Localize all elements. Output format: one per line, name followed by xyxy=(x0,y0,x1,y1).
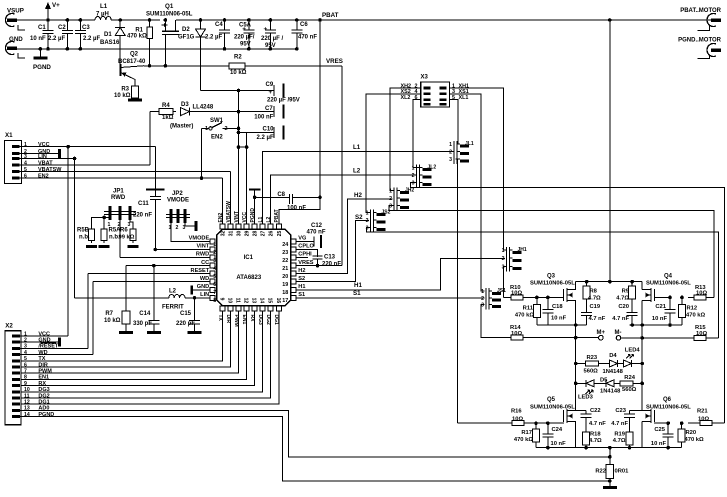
pin X2-1 VCC xyxy=(12,335,20,338)
pin 13 RX of IC1 xyxy=(252,306,257,311)
pin 14 DG3 of IC1 xyxy=(260,306,265,311)
wire D2 to C9 node xyxy=(201,90,239,92)
bracket PGND motor xyxy=(698,55,710,59)
svg-text:Q5: Q5 xyxy=(547,397,556,403)
svg-text:2: 2 xyxy=(389,196,392,202)
svg-text:LED4: LED4 xyxy=(625,347,641,353)
svg-text:3: 3 xyxy=(128,222,131,228)
wire WD to X2 xyxy=(92,282,94,355)
wire Q5 drain to C22 xyxy=(576,410,586,412)
svg-text:PBAT: PBAT xyxy=(322,12,339,19)
junction C9 node xyxy=(237,89,241,93)
svg-text:16: 16 xyxy=(275,298,281,304)
svg-text:9: 9 xyxy=(218,298,224,301)
svg-text:C25: C25 xyxy=(654,427,665,433)
svg-text:C3: C3 xyxy=(82,25,90,31)
svg-text:C23: C23 xyxy=(615,408,626,414)
wire PWM IC to X2 xyxy=(20,311,239,373)
svg-text:1: 1 xyxy=(502,248,505,254)
svg-text:Q1: Q1 xyxy=(165,3,174,10)
wire R2 to VRES corner xyxy=(245,65,342,67)
svg-text:JH2: JH2 xyxy=(405,187,414,193)
wire gate RC tie right xyxy=(630,324,683,326)
wire gate drive to R2 xyxy=(144,65,229,67)
svg-text:R12: R12 xyxy=(687,306,698,312)
resistor R16 xyxy=(512,421,524,426)
svg-text:XL1: XL1 xyxy=(459,95,469,101)
junction D1 top xyxy=(118,18,122,22)
svg-text:C10: C10 xyxy=(263,126,275,132)
pin 9 TX of IC1 xyxy=(220,306,225,311)
wire PGND to shunt gnd xyxy=(20,417,610,481)
pin 1 VMODE of IC1 xyxy=(210,239,215,244)
inductor L1 xyxy=(95,16,111,20)
svg-text:560Ω: 560Ω xyxy=(622,387,637,393)
ground R5A xyxy=(99,245,110,248)
pin X2-2 GND xyxy=(12,341,20,344)
pin 28 PGND of IC1 xyxy=(252,224,257,229)
resistor R3 xyxy=(132,86,139,98)
pin 6 WD of IC1 xyxy=(210,279,215,284)
svg-text:C15: C15 xyxy=(180,311,192,317)
svg-text:LIN: LIN xyxy=(200,292,209,298)
svg-text:1kΩ: 1kΩ xyxy=(162,115,174,121)
jumper JL1 xyxy=(454,141,457,164)
junction C13 VRES xyxy=(316,264,320,268)
capacitor C13 xyxy=(313,250,323,266)
wire Q4 gate xyxy=(654,296,670,298)
svg-text:PGND: PGND xyxy=(33,64,51,71)
pin 10 DIR of IC1 xyxy=(228,306,233,311)
ground C14 xyxy=(147,331,161,334)
wire X2 VCC xyxy=(20,335,68,337)
wire H2 net xyxy=(296,199,392,274)
wire R10 to Q3 gate xyxy=(530,296,564,298)
pin 26 L2 of IC1 xyxy=(268,224,273,229)
ground shunt xyxy=(603,486,617,489)
pin 22 CPHI of IC1 xyxy=(291,255,296,260)
svg-text:SUM110N06-05L: SUM110N06-05L xyxy=(646,281,691,287)
pin 32 EN2 of IC1 xyxy=(220,224,225,229)
svg-text:(Master): (Master) xyxy=(170,124,193,130)
ground R5B xyxy=(86,245,97,248)
pin X1-2 GND xyxy=(12,152,20,155)
svg-text:BC817-40: BC817-40 xyxy=(118,59,146,65)
pin X2-7 PWM xyxy=(12,372,20,375)
svg-text:R21: R21 xyxy=(697,409,708,415)
junction VCC to X2 xyxy=(66,145,70,149)
svg-text:3: 3 xyxy=(481,302,484,308)
svg-text:C1: C1 xyxy=(38,25,46,31)
svg-text:SUM110N06-05L: SUM110N06-05L xyxy=(530,281,575,287)
wire X1 VBAT row xyxy=(20,164,150,166)
ground X1 GND xyxy=(58,149,61,158)
ground PGND xyxy=(39,49,41,57)
svg-text:29: 29 xyxy=(245,230,251,236)
svg-text:VSUP: VSUP xyxy=(7,8,24,15)
svg-text:S2: S2 xyxy=(355,214,363,221)
pin X2-6 DIR xyxy=(12,366,20,369)
svg-text:S1: S1 xyxy=(353,290,361,297)
ground PGND pin28 xyxy=(254,190,256,224)
capacitor C24 xyxy=(542,423,553,448)
wire M- column xyxy=(641,338,643,364)
wire M+ column xyxy=(575,338,577,364)
svg-text:M-: M- xyxy=(615,330,622,336)
svg-text:C19: C19 xyxy=(590,304,601,310)
svg-text:10Ω: 10Ω xyxy=(698,416,709,422)
svg-text:BAS16: BAS16 xyxy=(100,40,120,46)
svg-text:12: 12 xyxy=(243,298,249,304)
wire L1 net xyxy=(263,152,454,224)
wire D3 to node xyxy=(190,111,239,113)
wire M- line xyxy=(621,337,694,339)
resistor R24 xyxy=(620,381,633,386)
svg-text:R22: R22 xyxy=(595,469,606,475)
capacitor C15 branch xyxy=(194,298,196,312)
capacitor C20 xyxy=(627,303,638,325)
svg-text:CC: CC xyxy=(201,260,209,266)
bracket PBAT motor xyxy=(698,25,710,31)
svg-text:32: 32 xyxy=(220,230,226,236)
junction C7 node xyxy=(237,110,241,114)
svg-text:15: 15 xyxy=(267,298,273,304)
wire Q3 drain xyxy=(575,282,577,290)
wire R5B to JP1-1 xyxy=(92,217,110,226)
capacitor C15 xyxy=(189,312,200,333)
svg-text:1: 1 xyxy=(205,126,208,132)
diode D3 LL4248 xyxy=(181,108,190,116)
svg-text:4.7Ω: 4.7Ω xyxy=(589,438,602,444)
pin 27 L1 of IC1 xyxy=(260,224,265,229)
wire bridge drain rail xyxy=(576,281,643,283)
svg-text:7: 7 xyxy=(24,369,27,375)
wire X1 GND row xyxy=(20,153,60,155)
wire X2 GND xyxy=(20,341,60,343)
svg-text:LL4248: LL4248 xyxy=(193,105,214,111)
pin 8 LIN of IC1 xyxy=(210,295,215,300)
pin 16 DG1 of IC1 xyxy=(276,306,281,311)
svg-text:10 kΩ: 10 kΩ xyxy=(114,93,131,99)
resistor R21 xyxy=(700,421,712,426)
svg-text:C11: C11 xyxy=(138,201,149,207)
wire TX IC to X2 xyxy=(20,311,223,361)
svg-text:SUM110N06-05L: SUM110N06-05L xyxy=(530,405,575,411)
svg-text:EN2: EN2 xyxy=(211,135,223,141)
transistor Q1 SUM110N06-05L xyxy=(165,20,175,32)
junction D2 xyxy=(199,18,203,22)
svg-text:26: 26 xyxy=(269,230,275,236)
svg-text:VRES: VRES xyxy=(326,58,343,65)
svg-text:EN2: EN2 xyxy=(218,213,224,223)
svg-text:10Ω: 10Ω xyxy=(696,331,707,337)
svg-text:470 kΩ: 470 kΩ xyxy=(127,34,147,40)
svg-text:VMODE: VMODE xyxy=(167,198,189,204)
svg-text:10Ω: 10Ω xyxy=(511,291,522,297)
svg-text:R20: R20 xyxy=(686,430,697,436)
wire CPHI stub xyxy=(296,257,308,259)
svg-text:95V: 95V xyxy=(240,42,251,48)
svg-text:SUM110N06-05L: SUM110N06-05L xyxy=(146,12,193,18)
svg-text:DG2: DG2 xyxy=(38,393,49,399)
resistor R2 xyxy=(229,63,245,69)
svg-text:470 kΩ: 470 kΩ xyxy=(515,313,535,319)
svg-text:ATA6823: ATA6823 xyxy=(236,275,261,281)
terminal M+ xyxy=(599,335,604,340)
pin 2 VINT of IC1 xyxy=(210,247,215,252)
svg-text:CPHI: CPHI xyxy=(298,252,312,258)
wire R6 to JP1-3 xyxy=(130,220,133,227)
pin X1-6 EN2 xyxy=(12,177,20,180)
svg-text:C24: C24 xyxy=(552,427,563,433)
svg-text:27: 27 xyxy=(261,230,267,236)
wire R16 to Q5 gate xyxy=(530,422,564,424)
wire L2 net xyxy=(271,175,417,224)
resistor R12 xyxy=(679,305,686,318)
connector X3 xyxy=(421,82,450,107)
junction EN2 row xyxy=(200,176,204,180)
junction PGND stub xyxy=(39,47,43,51)
svg-text:2: 2 xyxy=(449,150,452,156)
svg-text:10: 10 xyxy=(24,387,30,393)
capacitor C6 xyxy=(291,20,302,49)
svg-text:2: 2 xyxy=(481,296,484,302)
wire JH1-3 to R10 xyxy=(504,266,507,297)
svg-text:JS1: JS1 xyxy=(497,288,506,294)
wire Q6 source xyxy=(641,422,643,448)
junction R1 top xyxy=(148,18,152,22)
capacitor C12 xyxy=(296,236,314,246)
wire JP1-2 RWD to IC pin3 xyxy=(119,220,121,258)
svg-text:470 nF: 470 nF xyxy=(298,35,317,41)
svg-text:470 kΩ: 470 kΩ xyxy=(685,437,705,443)
svg-text:8: 8 xyxy=(24,375,27,381)
svg-text:220 nF: 220 nF xyxy=(133,213,152,219)
resistor R7 xyxy=(122,311,130,324)
wire JS1-3 to R14 xyxy=(481,304,504,337)
svg-text:V+: V+ xyxy=(52,2,60,9)
pin 11 PWM of IC1 xyxy=(236,306,241,311)
svg-text:VCC: VCC xyxy=(242,212,248,223)
wire JH2-3 to Q4 gate xyxy=(389,206,714,298)
pin X2-4 WD xyxy=(12,353,20,356)
svg-text:20: 20 xyxy=(282,274,288,280)
ground R3 xyxy=(128,99,142,102)
svg-text:4.7Ω: 4.7Ω xyxy=(613,438,626,444)
svg-text:7 µH: 7 µH xyxy=(96,12,109,18)
svg-text:10Ω: 10Ω xyxy=(512,416,523,422)
wire to shunt R22 xyxy=(609,448,611,464)
capacitor C11 xyxy=(146,188,165,190)
svg-text:C14: C14 xyxy=(139,311,151,317)
wire JS2-3 to M- sense xyxy=(366,228,718,338)
capacitor C5B xyxy=(265,20,276,49)
svg-text:+: + xyxy=(242,26,246,33)
svg-text:D3: D3 xyxy=(181,102,189,108)
svg-text:1: 1 xyxy=(389,189,392,195)
svg-text:PWM: PWM xyxy=(38,369,52,375)
wire CPLO net xyxy=(296,250,317,257)
wire C10 to IC pin 29 xyxy=(246,132,248,224)
wire DG1 IC to X2 xyxy=(20,311,279,404)
svg-text:X2: X2 xyxy=(5,323,13,330)
wire AD0 to shunt xyxy=(20,410,610,456)
wire RESET net xyxy=(88,273,210,275)
svg-text:19: 19 xyxy=(282,282,288,288)
wire R4 to VBAT row xyxy=(149,112,151,165)
resistor R13 xyxy=(694,295,706,300)
svg-text:VG: VG xyxy=(298,236,306,242)
svg-text:DG3: DG3 xyxy=(38,387,49,393)
svg-text:4.7 nF: 4.7 nF xyxy=(589,421,606,427)
svg-text:D5: D5 xyxy=(600,377,608,383)
svg-text:S2: S2 xyxy=(298,276,305,282)
wire RX IC to X2 xyxy=(20,311,255,386)
wire JP2-3 to ground xyxy=(185,223,196,226)
svg-text:JL1: JL1 xyxy=(465,141,474,147)
svg-text:14: 14 xyxy=(259,298,265,304)
svg-text:S1: S1 xyxy=(298,292,305,298)
svg-text:DG1: DG1 xyxy=(38,400,49,406)
svg-text:C22: C22 xyxy=(590,408,601,414)
pin 5 RESET of IC1 xyxy=(210,271,215,276)
svg-text:M+: M+ xyxy=(597,330,606,336)
resistor R6 xyxy=(130,229,136,241)
svg-text:H2: H2 xyxy=(354,192,362,199)
wire JL1-3 to Q5 gate xyxy=(456,159,458,423)
terminal M- xyxy=(616,336,621,341)
svg-text:L2: L2 xyxy=(353,168,361,175)
pin 7 GND of IC1 xyxy=(210,287,215,292)
svg-text:IC1: IC1 xyxy=(244,255,254,261)
svg-text:2: 2 xyxy=(225,126,228,132)
svg-text:13: 13 xyxy=(251,298,257,304)
pin X2-9 RX xyxy=(12,384,20,387)
junction C3 rail xyxy=(79,18,83,22)
svg-text:PBAT: PBAT xyxy=(274,209,280,222)
transistor Q2 BC817-40 xyxy=(120,64,122,76)
wire LED row 1 xyxy=(576,363,584,365)
svg-text:1: 1 xyxy=(481,289,484,295)
svg-text:L1: L1 xyxy=(353,144,361,151)
capacitor C18 xyxy=(542,297,553,325)
svg-text:GND: GND xyxy=(9,36,23,43)
svg-text:99 kΩ: 99 kΩ xyxy=(119,235,135,241)
capacitor C4 xyxy=(219,20,230,49)
svg-text:L1: L1 xyxy=(100,3,108,10)
svg-text:560Ω: 560Ω xyxy=(584,368,599,374)
wire PBAT sense vertical xyxy=(319,20,321,197)
svg-text:4.7Ω: 4.7Ω xyxy=(616,296,629,302)
svg-text:10 kΩ: 10 kΩ xyxy=(104,318,121,324)
junction C2 rail xyxy=(66,18,70,22)
svg-text:4.7 nF: 4.7 nF xyxy=(612,316,629,322)
resistor R14 xyxy=(511,335,523,340)
svg-text:VINT: VINT xyxy=(196,244,209,250)
wire VCC to C11 xyxy=(154,147,156,190)
jumper JH1 xyxy=(507,247,510,271)
diode D4 1N4148 xyxy=(610,360,618,367)
svg-text:R4: R4 xyxy=(162,103,170,109)
wire VBATSW to IC pin31 xyxy=(230,172,232,224)
svg-text:Q4: Q4 xyxy=(664,274,673,280)
wire top rail VSUP to L1 xyxy=(16,19,95,21)
wire X2 RESET xyxy=(20,347,88,349)
wire S2 net xyxy=(296,220,369,281)
svg-text:XL2: XL2 xyxy=(401,95,411,101)
pin 23 CPLO of IC1 xyxy=(291,247,296,252)
ground JP2 xyxy=(195,221,198,231)
svg-text:R11: R11 xyxy=(523,306,534,312)
junction C8 PBAT xyxy=(318,196,322,200)
svg-text:n.b.: n.b. xyxy=(79,235,90,241)
junction LIN drop xyxy=(73,157,77,161)
junction C10 row xyxy=(237,131,241,135)
connector PBAT..MOTOR xyxy=(707,14,716,27)
wire JP2-1 VMODE to IC pin1 xyxy=(171,223,210,241)
junction C1 gnd xyxy=(46,47,50,51)
resistor R18 xyxy=(583,432,590,445)
svg-text:CPLO: CPLO xyxy=(298,244,314,250)
junction Q1 source xyxy=(164,18,168,22)
wire Q6 gate xyxy=(654,422,668,424)
svg-text:2: 2 xyxy=(366,218,369,224)
svg-text:2.2 µF: 2.2 µF xyxy=(48,36,65,42)
power flag V+ xyxy=(47,8,49,20)
connector GND input xyxy=(6,42,15,55)
svg-text:TX: TX xyxy=(38,356,45,362)
wire Q4 source to M- xyxy=(641,301,643,338)
wire JL2-3 to Q6 gate xyxy=(411,183,725,424)
pin X2-5 TX xyxy=(12,359,20,362)
pin 25 PBAT of IC1 xyxy=(276,224,281,229)
svg-text:R6: R6 xyxy=(120,228,128,234)
wire Q1 drain to PBAT rail xyxy=(176,19,201,21)
wire X2 WD xyxy=(20,354,93,356)
resistor R19 xyxy=(626,432,633,445)
svg-text:C8: C8 xyxy=(277,192,285,198)
capacitor C8 xyxy=(255,194,320,204)
svg-text:4.7Ω: 4.7Ω xyxy=(588,296,601,302)
pin X1-4 VBAT xyxy=(12,164,20,167)
svg-text:PGND..MOTOR: PGND..MOTOR xyxy=(678,38,722,44)
resistor R11 xyxy=(533,305,540,318)
svg-text:1: 1 xyxy=(366,211,369,217)
wire SW1 to EN2 row xyxy=(201,128,203,178)
resistor R20 xyxy=(678,429,685,442)
svg-text:10 nF: 10 nF xyxy=(652,316,668,322)
svg-text:D1: D1 xyxy=(104,32,112,38)
svg-text:R7: R7 xyxy=(105,311,113,317)
wire X1 VBATSW row xyxy=(20,171,231,173)
wire VINT to C11 xyxy=(155,249,210,251)
pin 12 EN1 of IC1 xyxy=(244,306,249,311)
svg-text:D2: D2 xyxy=(182,27,190,33)
svg-text:220 µF/: 220 µF/ xyxy=(234,35,255,41)
svg-text:R18: R18 xyxy=(590,432,601,438)
svg-text:2.2 µF: 2.2 µF xyxy=(257,135,274,141)
pin 3 RWD of IC1 xyxy=(210,255,215,260)
svg-text:9: 9 xyxy=(24,381,27,387)
ground R6 xyxy=(128,245,139,248)
pin 18 H1 of IC1 xyxy=(291,287,296,292)
svg-text:10: 10 xyxy=(227,298,233,304)
svg-text:2: 2 xyxy=(412,173,415,179)
svg-text:RX: RX xyxy=(38,381,46,387)
pin 30 VINT of IC1 xyxy=(236,224,241,229)
resistor R1 xyxy=(147,27,153,39)
svg-text:GF1G: GF1G xyxy=(178,35,195,41)
